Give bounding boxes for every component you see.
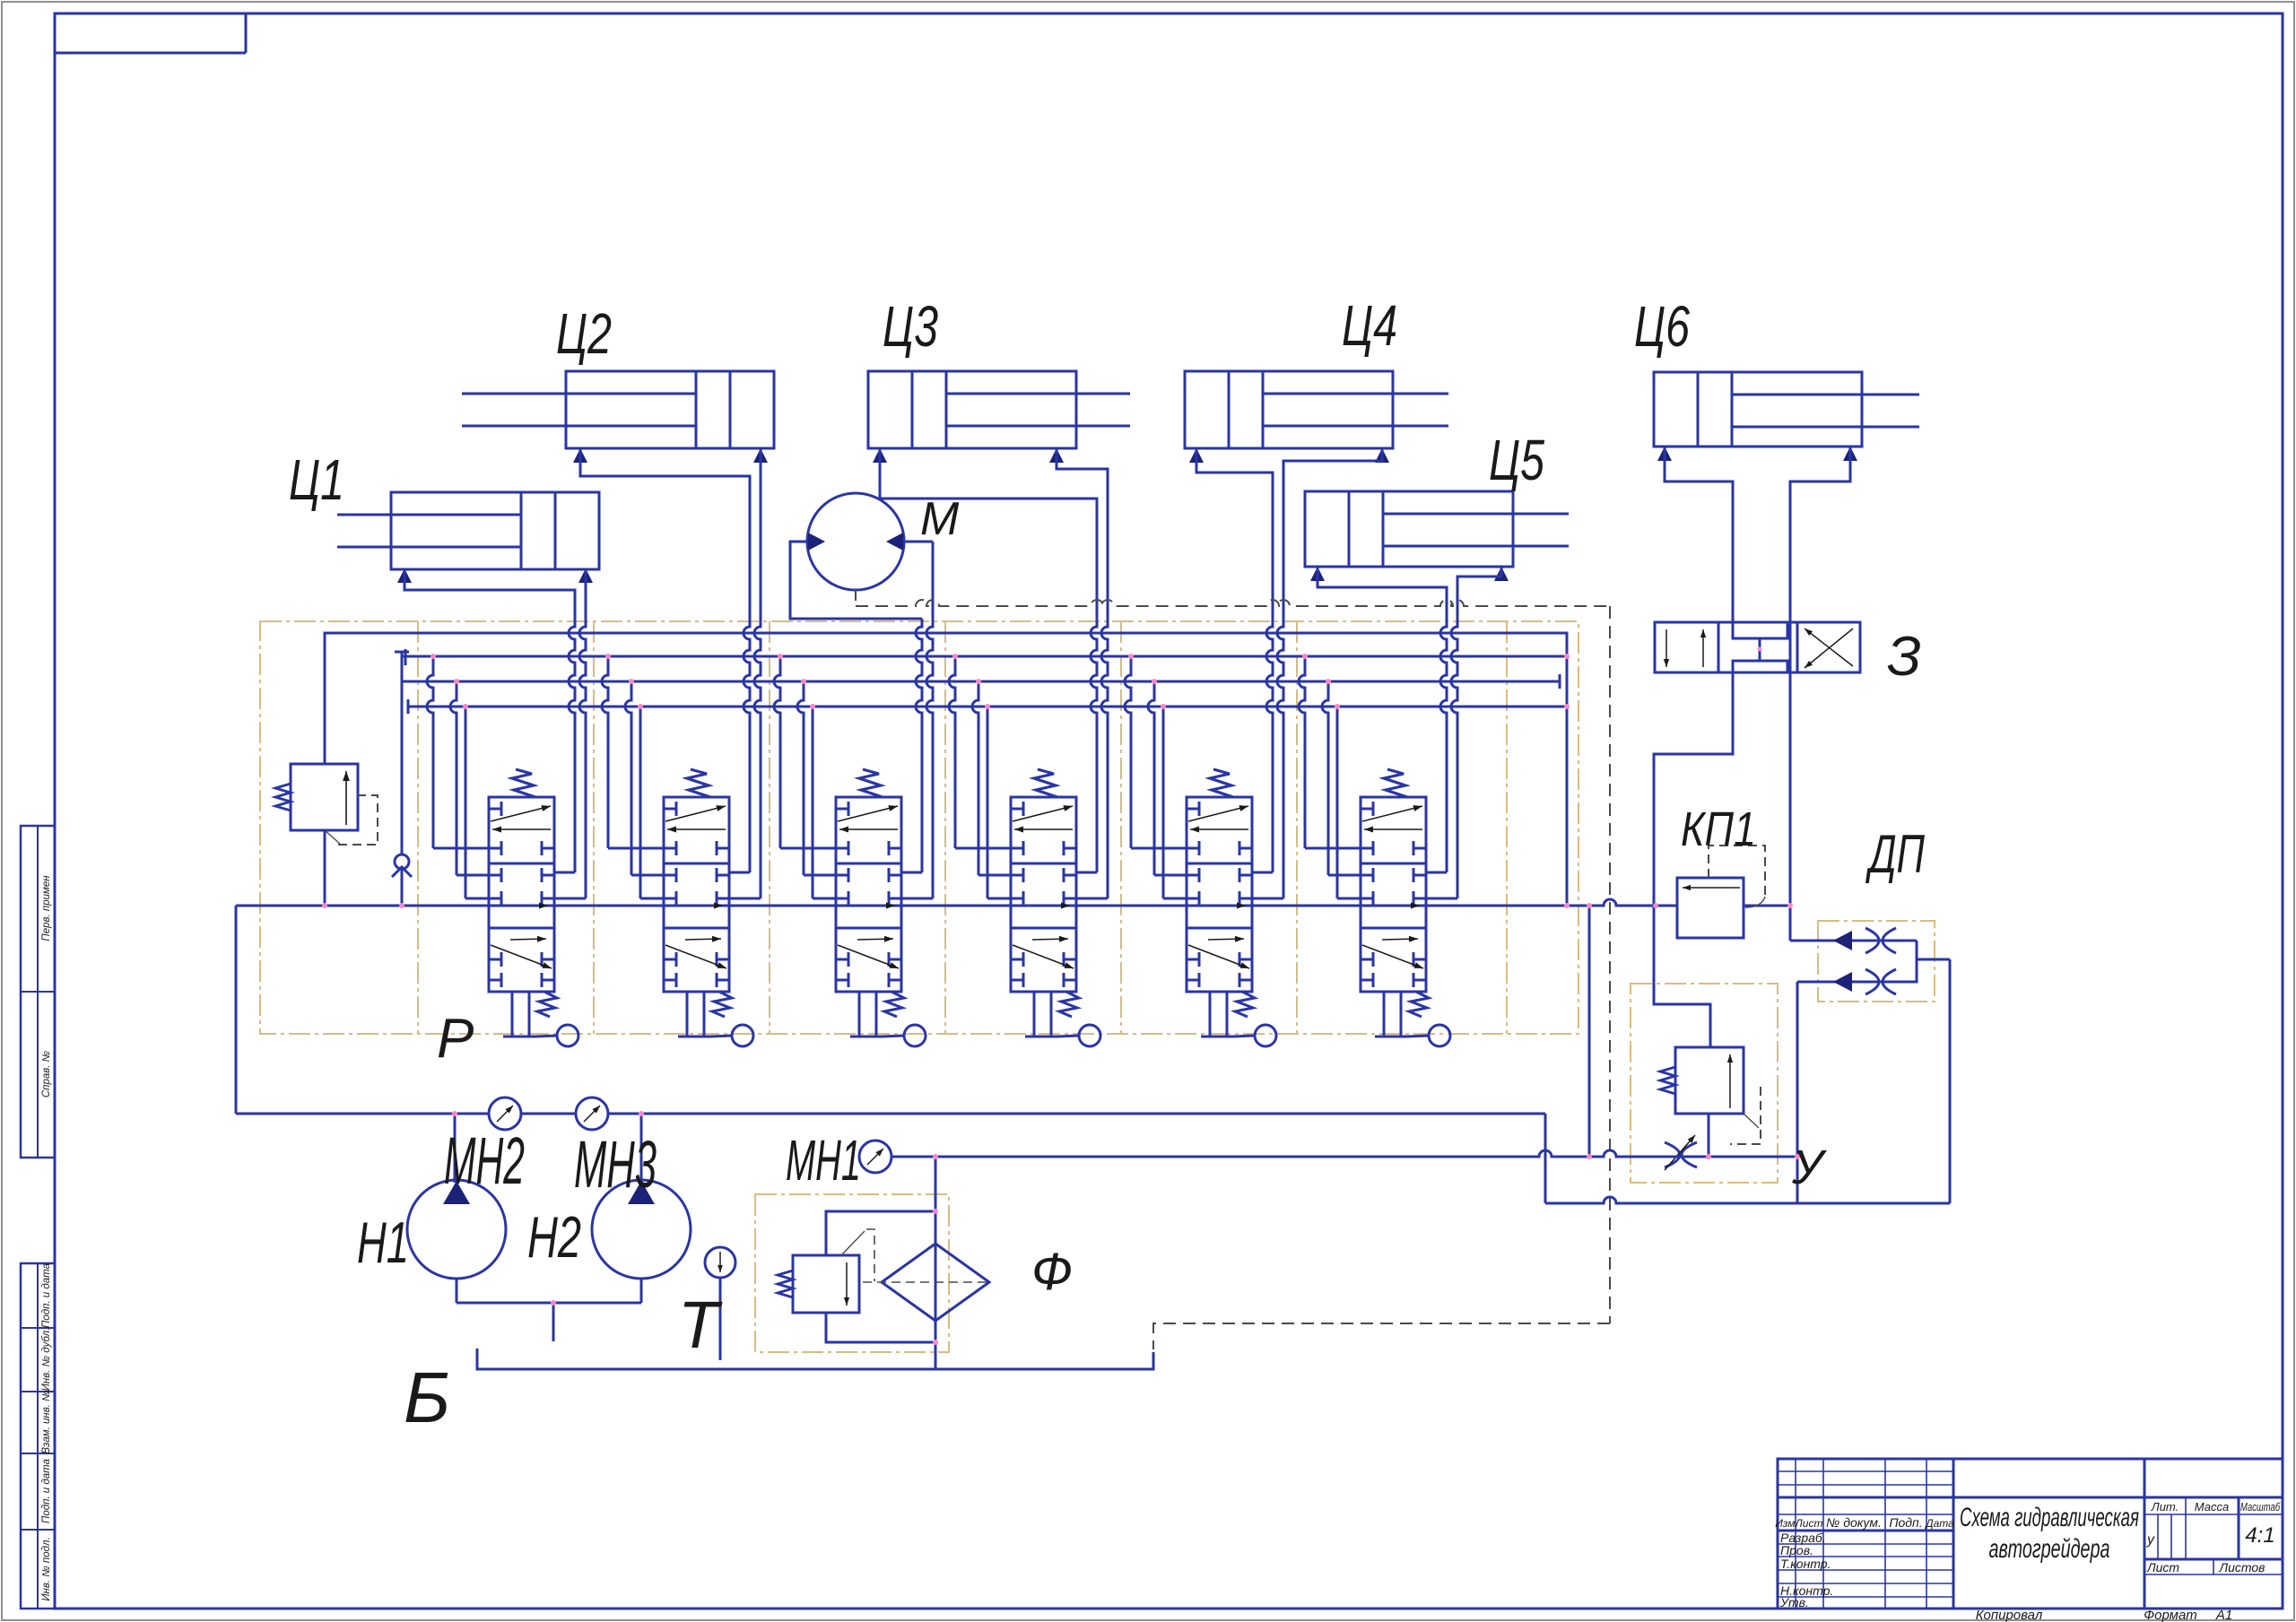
wire pump outlet	[457, 1303, 641, 1341]
svg-text:Ц4: Ц4	[1342, 293, 1397, 358]
svg-text:МН2: МН2	[444, 1123, 525, 1198]
svg-text:Т: Т	[678, 1288, 723, 1362]
svg-text:МН3: МН3	[574, 1127, 657, 1201]
wires cylinder Ts2	[580, 448, 761, 595]
pilot drops to valve 2	[602, 654, 664, 898]
wires cylinder Ts6	[1665, 447, 1850, 622]
left margin attribute table	[21, 826, 55, 1609]
svg-text:Ц2: Ц2	[556, 301, 612, 366]
damper block U	[1631, 984, 1778, 1183]
svg-text:Взам. инв. №: Взам. инв. №	[41, 1390, 52, 1454]
wires valve Z outputs	[1654, 622, 1790, 1047]
svg-text:Ц6: Ц6	[1634, 294, 1690, 359]
svg-text:Ц3: Ц3	[883, 294, 938, 359]
svg-text:Листов: Листов	[2219, 1560, 2266, 1574]
pilot drops to valve 4	[949, 654, 1011, 898]
svg-text:Лист: Лист	[2146, 1560, 2179, 1574]
svg-text:Копировал: Копировал	[1976, 1608, 2043, 1622]
hydraulic cylinder Ts3	[868, 371, 1130, 463]
svg-text:Справ. №: Справ. №	[41, 1050, 52, 1097]
dashed drain line	[856, 600, 1610, 1349]
hydraulic cylinder Ts6	[1654, 372, 1919, 461]
pressure gauge MN1	[859, 1141, 891, 1173]
svg-text:Схема гидравлическая: Схема гидравлическая	[1960, 1503, 2139, 1532]
svg-text:Лит.: Лит.	[2151, 1500, 2179, 1514]
directional control valve section 1 (P)	[489, 769, 578, 1046]
work port lines valve 2	[729, 448, 761, 898]
svg-text:Лист: Лист	[1795, 1517, 1823, 1530]
svg-text:Инв. № подл.: Инв. № подл.	[41, 1537, 52, 1600]
work port lines valve 6	[1426, 577, 1457, 898]
svg-text:Масса: Масса	[2195, 1500, 2229, 1514]
work port lines valve 1	[554, 568, 586, 898]
work port lines valve 5	[1252, 461, 1283, 898]
svg-text:Ц5: Ц5	[1489, 428, 1544, 492]
pilot drops to valve 3	[774, 654, 836, 898]
svg-text:М: М	[920, 493, 960, 545]
svg-text:Перв. примен: Перв. примен	[41, 875, 52, 941]
svg-text:Т.контр.: Т.контр.	[1780, 1557, 1831, 1571]
svg-text:автогрейдера: автогрейдера	[1989, 1534, 2110, 1564]
svg-text:Р: Р	[437, 1008, 474, 1070]
svg-text:Масштаб: Масштаб	[2240, 1500, 2280, 1514]
hydraulic cylinder Ts1	[337, 492, 599, 583]
wire rail D	[408, 699, 1567, 714]
filter F with bypass valve	[755, 1157, 989, 1369]
svg-text:У: У	[1791, 1141, 1827, 1194]
work port lines valve 4	[1076, 469, 1108, 898]
svg-text:Подп.: Подп.	[1889, 1515, 1922, 1530]
hydraulic motor M	[790, 493, 933, 619]
throttle-check block DP	[1790, 921, 1950, 1204]
wires cylinder Ts5	[1318, 567, 1501, 595]
svg-text:№ докум.: № докум.	[1826, 1515, 1882, 1530]
top-left reference box	[55, 13, 246, 53]
svg-text:Н1: Н1	[357, 1210, 409, 1275]
pump N1	[407, 1114, 506, 1303]
wires cylinder Ts3	[880, 448, 1108, 595]
directional control valve section 2 (P)	[664, 769, 753, 1046]
svg-text:Формат: Формат	[2144, 1608, 2197, 1622]
directional control valve section 6 (P)	[1361, 769, 1450, 1046]
svg-text:Подп. и дата: Подп. и дата	[41, 1263, 52, 1328]
pilot drops to valve 1	[427, 654, 489, 898]
directional control valve section 5 (P)	[1187, 769, 1276, 1046]
hydraulic cylinder Ts4	[1185, 371, 1448, 463]
svg-text:Инв. № дубл.: Инв. № дубл.	[41, 1328, 52, 1392]
svg-text:ДП: ДП	[1865, 824, 1926, 884]
wire rail C	[402, 674, 1560, 689]
svg-text:А1: А1	[2215, 1608, 2232, 1622]
hydraulic cylinder Ts5	[1305, 491, 1569, 581]
pump N2	[592, 1114, 691, 1303]
pilot drops to valve 6	[1299, 654, 1361, 898]
wire bus-to-pump vertical	[235, 906, 238, 1114]
pressure gauge MN3	[576, 1097, 608, 1130]
svg-text:Подп. и дата: Подп. и дата	[41, 1459, 52, 1523]
wire rail A	[325, 633, 1567, 906]
pilot valve Z (4/2)	[1655, 622, 1860, 672]
svg-text:Дата: Дата	[1924, 1517, 1954, 1530]
valve manifold enclosure (dash-dot)	[260, 621, 1578, 1034]
wire rail B	[402, 649, 1567, 665]
relief valve KP (manifold inlet)	[275, 633, 378, 906]
wires cylinder Ts1	[404, 568, 586, 595]
pressure valve KP1	[1677, 846, 1765, 938]
pilot drops to valve 5	[1125, 654, 1187, 898]
svg-text:Ц1: Ц1	[289, 447, 344, 512]
svg-text:МН1: МН1	[786, 1128, 861, 1193]
work port lines valve 3	[901, 542, 933, 898]
wire main pressure bus P	[236, 899, 1790, 906]
directional control valve section 4 (P)	[1011, 769, 1100, 1046]
svg-text:у: у	[2146, 1532, 2155, 1548]
pressure gauge MN2	[489, 1097, 521, 1130]
wire gauge line MN1	[891, 1150, 1797, 1157]
svg-text:Утв.: Утв.	[1779, 1595, 1809, 1609]
svg-text:З: З	[1887, 626, 1921, 688]
wire tap U	[1588, 906, 1591, 1157]
wire return line	[236, 959, 1950, 1203]
check valve at manifold inlet	[392, 652, 412, 906]
svg-text:Н2: Н2	[527, 1204, 581, 1270]
svg-text:КП1: КП1	[1681, 802, 1756, 856]
hydraulic cylinder Ts2	[462, 371, 774, 463]
directional control valve section 3 (P)	[836, 769, 926, 1046]
title block	[1775, 1459, 2283, 1622]
tank B line	[477, 1349, 1153, 1369]
svg-text:Б: Б	[404, 1357, 450, 1437]
thermometer T	[705, 1247, 735, 1360]
wires cylinder Ts4	[1196, 448, 1382, 595]
svg-text:4:1: 4:1	[2245, 1523, 2274, 1548]
svg-text:Ф: Ф	[1031, 1243, 1073, 1301]
svg-text:Пров.: Пров.	[1780, 1543, 1813, 1557]
